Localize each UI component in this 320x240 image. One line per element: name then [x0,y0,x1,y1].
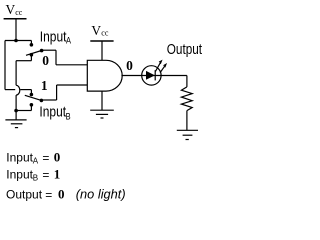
svg-text:=: = [42,151,49,165]
svg-text:=: = [42,168,49,182]
svg-text:Output: Output [167,41,203,57]
svg-text:Input: Input [6,167,33,181]
svg-text:cc: cc [15,8,23,17]
svg-text:1: 1 [41,78,48,93]
svg-text:0: 0 [54,149,61,164]
svg-text:Input: Input [39,104,66,120]
svg-text:A: A [66,36,71,46]
svg-text:Input: Input [40,28,67,44]
svg-text:V: V [91,23,101,38]
svg-text:Input: Input [6,150,33,164]
svg-text:0: 0 [126,58,133,73]
svg-text:0: 0 [58,186,65,201]
svg-text:B: B [66,112,71,122]
svg-text:cc: cc [101,29,109,38]
svg-text:V: V [6,2,16,17]
svg-text:=: = [45,188,52,202]
svg-text:(no light): (no light) [76,186,126,201]
svg-text:1: 1 [54,166,61,181]
svg-text:A: A [33,156,39,165]
svg-text:Output: Output [6,187,43,201]
svg-text:B: B [33,173,38,182]
svg-text:0: 0 [42,53,49,68]
